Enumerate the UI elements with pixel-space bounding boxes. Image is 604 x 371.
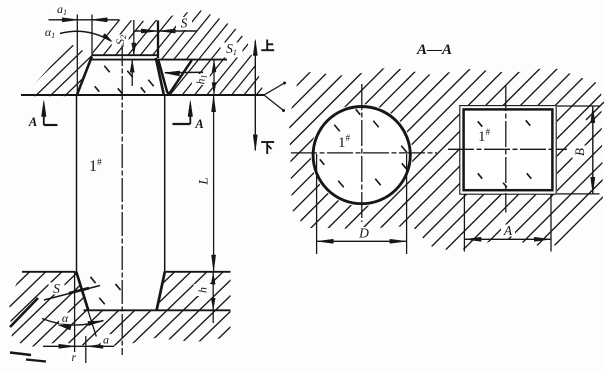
mold top surface line xyxy=(21,94,264,96)
arrow a1 right xyxy=(91,18,107,22)
svg-text:A: A xyxy=(194,117,203,131)
arrow a left xyxy=(59,344,75,348)
alpha1 arrowhead xyxy=(102,33,113,42)
alpha angle arc xyxy=(42,319,104,326)
dimension line a1 xyxy=(49,19,120,21)
S cut pointer line xyxy=(44,286,100,301)
thick dash bottom-left 1 xyxy=(10,353,31,356)
h dimension line xyxy=(212,272,214,310)
svg-text:B: B xyxy=(572,148,587,156)
arrow S right xyxy=(159,29,175,33)
updown indicator line xyxy=(254,41,256,150)
extension line S thick xyxy=(157,21,159,59)
arrow down indicator xyxy=(253,135,257,151)
extension of neck slant xyxy=(88,310,96,336)
riser top right slant edge xyxy=(156,58,164,95)
S2 upper arrow line xyxy=(133,20,135,55)
section mark left xyxy=(42,101,58,126)
square outer thin outline xyxy=(460,106,556,195)
svg-text:L: L xyxy=(196,177,211,185)
riser centre line xyxy=(121,42,123,355)
V notch bottom xyxy=(167,92,171,95)
riser body right edge xyxy=(164,95,166,272)
svg-text:S: S xyxy=(53,281,60,296)
riser body left edge xyxy=(76,95,78,272)
arrow A left xyxy=(465,237,481,241)
breaker plate top line xyxy=(92,54,158,56)
h arrow down xyxy=(211,298,215,309)
extension line B bottom xyxy=(557,193,600,195)
svg-text:A: A xyxy=(28,115,37,129)
thick dash bottom-left 2 xyxy=(26,360,46,362)
svg-text:a: a xyxy=(103,333,109,347)
arrow D left xyxy=(317,239,333,243)
break fork dots xyxy=(283,82,286,85)
riser top left slant edge xyxy=(77,57,92,95)
riser neck right slant xyxy=(157,272,165,311)
riser neck left slant xyxy=(76,272,88,311)
S cut pointer thick part xyxy=(69,288,89,293)
svg-text:h: h xyxy=(196,287,210,293)
hanzi up (shang) xyxy=(261,40,274,51)
S1 pointer arrowhead xyxy=(165,71,180,76)
S2 lower arrow line xyxy=(131,60,133,86)
svg-text:A: A xyxy=(503,223,513,238)
dimension line a xyxy=(43,345,114,347)
alpha arc arrow right xyxy=(88,321,101,326)
S2 upper arrowhead xyxy=(132,43,136,55)
arrow D right xyxy=(390,239,406,243)
extension line a1 right xyxy=(91,15,93,57)
ticks inside circle xyxy=(320,109,407,187)
h1 arrow up xyxy=(212,61,216,72)
ticks inside riser top xyxy=(95,66,154,94)
S1 pointer line xyxy=(165,71,203,74)
dimension line A xyxy=(464,238,551,240)
svg-text:S: S xyxy=(181,16,188,31)
alpha arc arrow left xyxy=(58,325,71,330)
extension line D right xyxy=(406,154,408,254)
circle vertical centre line xyxy=(361,84,363,222)
svg-text:D: D xyxy=(358,226,369,241)
extension line B top xyxy=(557,105,600,107)
h1 arrow down xyxy=(212,83,216,94)
L dimension line xyxy=(213,95,215,271)
svg-text:α: α xyxy=(62,311,69,325)
circle riser section D xyxy=(313,107,410,204)
L arrow down xyxy=(212,255,216,271)
dimension line S xyxy=(135,30,197,32)
breaker plate bottom line extended xyxy=(92,59,228,61)
S2 lower arrowhead xyxy=(130,60,134,72)
hanzi down (xia) xyxy=(261,142,274,154)
arrow up indicator xyxy=(253,40,257,56)
h dimension tail xyxy=(212,310,214,323)
circle horizontal centre line xyxy=(291,152,437,154)
square riser section thick xyxy=(464,109,553,190)
extension line A left xyxy=(463,195,465,252)
extension line a1 left xyxy=(76,15,78,96)
arrow a1 left xyxy=(62,18,78,22)
L arrow up xyxy=(212,96,216,112)
casting top surface line xyxy=(84,309,231,311)
arrow B top xyxy=(591,107,595,123)
V notch right slant xyxy=(170,60,192,93)
extension line a right xyxy=(85,336,87,363)
arrow a right xyxy=(87,344,103,348)
ticks inside square xyxy=(478,120,531,187)
svg-text:A—A: A—A xyxy=(416,42,452,58)
arrow A right xyxy=(534,237,550,241)
drag top surface left xyxy=(22,271,75,273)
V notch left slant xyxy=(158,60,167,93)
arrow B bottom xyxy=(591,177,595,193)
hatch stroke right edge xyxy=(586,102,604,120)
arrow S left xyxy=(141,29,157,33)
extension line A right xyxy=(550,195,552,252)
dimension line B xyxy=(592,106,594,194)
dimension line D xyxy=(317,240,407,242)
extension line r vertical xyxy=(74,272,76,362)
square vertical centre line xyxy=(505,85,507,213)
h arrow up xyxy=(211,273,215,284)
svg-text:r: r xyxy=(72,352,77,364)
svg-text:1#: 1# xyxy=(89,158,102,175)
extension line D left xyxy=(316,154,318,254)
break fork mark xyxy=(264,83,285,111)
alpha1 leader arc xyxy=(60,31,111,41)
thick hatch stroke bottom-left xyxy=(10,298,38,327)
h1 dimension line xyxy=(213,60,215,95)
drag top surface right xyxy=(166,271,231,273)
square horizontal centre line xyxy=(448,148,567,150)
section mark right xyxy=(173,101,193,125)
ticks inside riser neck xyxy=(90,277,120,304)
